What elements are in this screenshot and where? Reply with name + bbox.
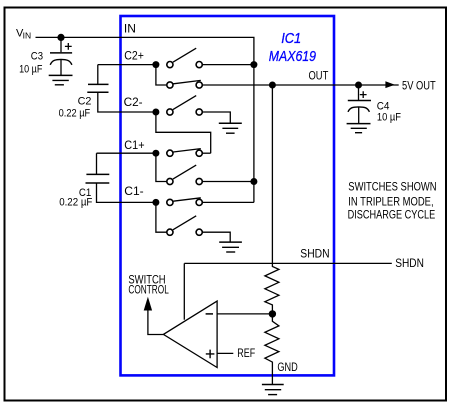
svg-text:GND: GND — [277, 360, 298, 374]
svg-text:10 µF: 10 µF — [377, 111, 401, 123]
svg-text:IN: IN — [23, 31, 32, 41]
svg-text:IN: IN — [124, 22, 136, 36]
svg-text:SWITCHES SHOWN: SWITCHES SHOWN — [348, 180, 436, 194]
svg-text:C2-: C2- — [124, 95, 143, 109]
svg-text:0.22 µF: 0.22 µF — [59, 197, 92, 209]
svg-text:C1-: C1- — [124, 184, 143, 198]
svg-text:MAX619: MAX619 — [269, 48, 317, 65]
svg-text:C1+: C1+ — [124, 138, 144, 152]
svg-text:IN TRIPLER MODE,: IN TRIPLER MODE, — [348, 194, 433, 208]
svg-text:SHDN: SHDN — [395, 256, 424, 270]
svg-text:C2: C2 — [78, 96, 92, 108]
svg-text:OUT: OUT — [309, 69, 329, 83]
svg-text:REF: REF — [237, 346, 255, 360]
svg-text:10 µF: 10 µF — [19, 63, 43, 75]
svg-text:CONTROL: CONTROL — [128, 283, 169, 297]
svg-text:C2+: C2+ — [124, 49, 144, 63]
svg-text:5V OUT: 5V OUT — [402, 78, 436, 92]
svg-text:IC1: IC1 — [281, 30, 301, 47]
svg-text:0.22 µF: 0.22 µF — [59, 108, 91, 120]
svg-text:C3: C3 — [31, 51, 43, 63]
svg-text:SHDN: SHDN — [300, 246, 329, 260]
svg-text:DISCHARGE CYCLE: DISCHARGE CYCLE — [348, 207, 436, 221]
